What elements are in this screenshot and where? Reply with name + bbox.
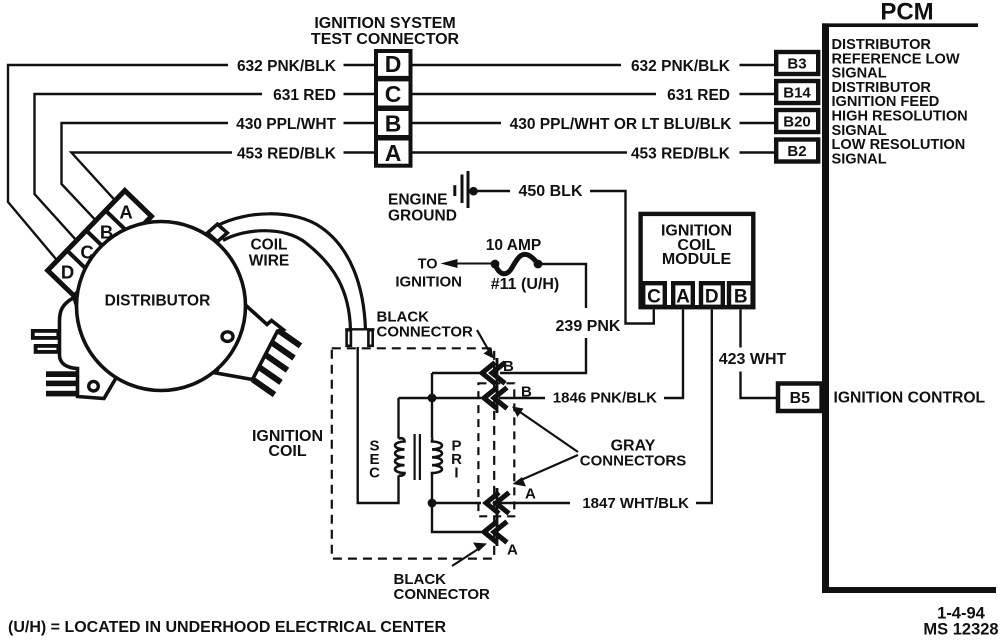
connector chevron B (black, 239 PNK) [482, 363, 505, 384]
arrow to gray connector A [521, 455, 578, 480]
gray connectors dashed box [478, 383, 514, 516]
connector chevron B (gray, 1846) [484, 388, 507, 409]
svg-text:C: C [80, 242, 93, 263]
svg-text:A: A [385, 140, 402, 166]
label PRI [451, 438, 462, 482]
svg-text:B: B [503, 358, 514, 375]
PCM terminal B14 [776, 81, 818, 103]
arrow to black connector A [452, 549, 479, 567]
arrow TO IGNITION [456, 263, 494, 265]
svg-text:B14: B14 [783, 85, 811, 102]
svg-text:A: A [119, 202, 132, 223]
module terminal B [729, 283, 753, 307]
upper left connector body [60, 298, 117, 399]
lower left connector hole [89, 381, 99, 391]
svg-text:(U/H) = LOCATED IN UNDERHOOD E: (U/H) = LOCATED IN UNDERHOOD ELECTRICAL … [8, 619, 447, 636]
module terminal A [673, 283, 693, 307]
svg-text:MS 12328: MS 12328 [923, 621, 998, 639]
distributor face hole [222, 332, 233, 342]
label GRAY CONNECTORS [580, 438, 686, 470]
ignition coil module box [641, 214, 754, 307]
svg-text:COIL: COIL [250, 237, 287, 254]
svg-text:C: C [385, 81, 402, 107]
svg-text:A: A [525, 486, 536, 503]
svg-text:TEST CONNECTOR: TEST CONNECTOR [311, 31, 460, 48]
engine ground symbol [455, 171, 468, 208]
PCM terminal B3 [776, 52, 818, 74]
module terminal D [701, 283, 723, 307]
wire 1846 PNK/BLK [499, 310, 683, 399]
svg-text:1846 PNK/BLK: 1846 PNK/BLK [553, 390, 657, 407]
primary winding PRI [432, 439, 442, 476]
svg-text:COIL: COIL [268, 443, 306, 460]
svg-text:CONNECTOR: CONNECTOR [377, 324, 474, 341]
test connector pin letters D C B A [385, 51, 402, 166]
svg-text:B: B [521, 384, 532, 401]
wire 631 RED (left run) [35, 94, 375, 239]
wire 450 BLK [474, 191, 654, 324]
distributor cap connector strip (A B C D) [48, 191, 152, 297]
svg-text:B: B [734, 287, 748, 308]
strip letters [61, 202, 133, 283]
connector bar A pair [496, 488, 499, 546]
svg-text:1847 WHT/BLK: 1847 WHT/BLK [582, 495, 689, 512]
label SEC [369, 438, 380, 482]
svg-text:430 PPL/WHT: 430 PPL/WHT [236, 116, 336, 133]
svg-text:DISTRIBUTOR: DISTRIBUTOR [105, 293, 211, 310]
svg-text:453 RED/BLK: 453 RED/BLK [237, 146, 337, 163]
svg-text:10 AMP: 10 AMP [486, 237, 541, 254]
svg-text:CONNECTORS: CONNECTORS [580, 453, 686, 470]
svg-text:B3: B3 [787, 56, 806, 73]
wire 453 RED/BLK (right run to PCM B2) [413, 151, 775, 153]
wire 632 PNK/BLK (right run to PCM B3) [413, 64, 775, 66]
label BLACK CONNECTOR (bottom) [394, 571, 491, 603]
wire 1847 WHT/BLK [499, 310, 712, 504]
label BLACK CONNECTOR (top) [377, 309, 474, 341]
PCM box outline [822, 23, 978, 27]
svg-text:631 RED: 631 RED [667, 87, 730, 104]
svg-text:632 PNK/BLK: 632 PNK/BLK [237, 58, 337, 75]
coil tower connector [345, 328, 374, 330]
wire 632 PNK/BLK (left run) [8, 65, 374, 259]
svg-text:TO: TO [418, 257, 438, 273]
wire 423 WHT [741, 310, 779, 399]
svg-text:IGNITION: IGNITION [395, 274, 462, 291]
junction dot coil primary top [428, 394, 437, 403]
svg-text:450 BLK: 450 BLK [518, 183, 582, 200]
svg-text:B2: B2 [787, 143, 806, 160]
test connector J1 (4-cell stack) [376, 51, 411, 166]
connector chevron A (gray, 1847) [486, 493, 509, 514]
fuse #11 10 AMP [491, 260, 500, 269]
secondary winding SEC [395, 438, 405, 476]
svg-text:IGNITION SYSTEM: IGNITION SYSTEM [314, 15, 455, 32]
svg-text:CONNECTOR: CONNECTOR [394, 586, 491, 603]
svg-text:D: D [705, 287, 719, 308]
svg-text:I: I [454, 465, 458, 482]
svg-text:C: C [369, 465, 380, 482]
PCM terminal B2 [776, 140, 818, 162]
right connector teeth [253, 331, 301, 395]
svg-text:WIRE: WIRE [249, 253, 289, 270]
svg-text:GROUND: GROUND [388, 208, 457, 225]
arrow to black connector B [477, 330, 489, 351]
svg-text:A: A [676, 287, 690, 308]
svg-text:423 WHT: 423 WHT [719, 351, 787, 368]
lower left connector teeth [46, 371, 78, 377]
svg-text:239 PNK: 239 PNK [556, 318, 621, 335]
ground junction dot [469, 187, 478, 196]
svg-text:PCM: PCM [880, 0, 933, 26]
label IGNITION COIL [252, 428, 323, 460]
label COIL WIRE [249, 237, 289, 270]
wire 453 RED/BLK (left run) [71, 153, 374, 200]
svg-text:632 PNK/BLK: 632 PNK/BLK [631, 58, 731, 75]
PCM pin function labels [832, 37, 968, 167]
svg-text:SIGNAL: SIGNAL [832, 151, 887, 167]
svg-text:B: B [385, 110, 402, 136]
module terminal C [643, 283, 665, 307]
svg-text:D: D [61, 262, 74, 283]
svg-text:C: C [647, 287, 661, 308]
svg-text:D: D [385, 51, 402, 77]
svg-text:#11 (U/H): #11 (U/H) [491, 276, 559, 293]
label TO IGNITION [395, 257, 462, 291]
wire 239 PNK [500, 264, 586, 373]
arrow to gray connector B [520, 412, 578, 452]
coil wire (double curve) [218, 214, 366, 330]
svg-text:A: A [507, 542, 518, 559]
upper left connector prongs [33, 331, 59, 338]
svg-text:430 PPL/WHT OR LT BLU/BLK: 430 PPL/WHT OR LT BLU/BLK [510, 116, 733, 133]
ignition coil dashed box [332, 348, 494, 558]
svg-text:631 RED: 631 RED [273, 87, 336, 104]
transformer core [415, 434, 420, 480]
svg-text:MODULE: MODULE [662, 251, 732, 268]
label ENGINE GROUND [388, 192, 457, 225]
right connector body [216, 306, 283, 380]
connector chevron A (black, bottom) [484, 522, 507, 543]
svg-text:B20: B20 [783, 114, 811, 131]
distributor body circle [77, 222, 246, 391]
junction dot coil primary bottom [428, 499, 437, 508]
distributor cap coil tower [208, 224, 228, 242]
wire 430 PPL/WHT OR LT BLU/BLK (right run to PCM B20) [413, 122, 775, 124]
PCM terminal B20 [776, 110, 818, 132]
svg-text:453 RED/BLK: 453 RED/BLK [631, 146, 731, 163]
svg-text:B: B [100, 222, 113, 243]
svg-text:ENGINE: ENGINE [388, 192, 447, 209]
connector bar B pair [496, 358, 499, 413]
PCM terminal B5 [778, 384, 822, 412]
svg-text:B5: B5 [790, 390, 811, 407]
svg-text:IGNITION CONTROL: IGNITION CONTROL [834, 390, 986, 407]
wire 430 PPL/WHT (left run) [62, 123, 375, 219]
wire 631 RED (right run to PCM B14) [413, 93, 775, 95]
coil internal wiring [358, 347, 481, 532]
title: IGNITION SYSTEM TEST CONNECTOR [311, 15, 460, 48]
